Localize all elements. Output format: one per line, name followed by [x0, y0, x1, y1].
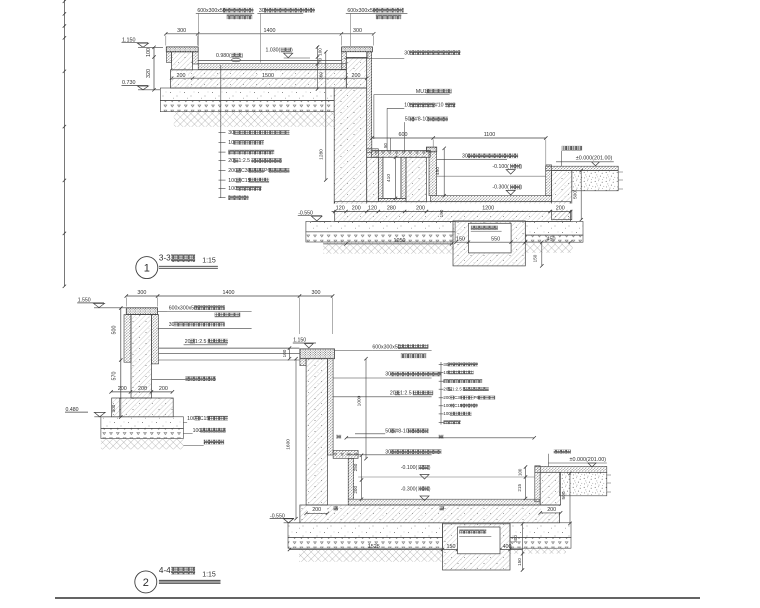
d2 material build-up list — [439, 362, 495, 425]
left curb outer lining — [166, 52, 171, 63]
svg-text:): ) — [291, 48, 293, 54]
svg-text:320: 320 — [146, 69, 152, 78]
pool bottom level -0.300 — [492, 185, 522, 195]
svg-text:120: 120 — [368, 205, 377, 211]
svg-text:250: 250 — [353, 463, 358, 471]
svg-text:30: 30 — [259, 8, 265, 14]
svg-text:±0.000(201.00): ±0.000(201.00) — [570, 457, 607, 463]
dim 500 right wall — [573, 169, 583, 222]
d2 left wall left lining — [124, 315, 131, 363]
pool left wall lining — [429, 152, 437, 196]
d2 sump cavity — [458, 527, 501, 554]
d2 label 50 thick black gravel — [355, 429, 429, 435]
svg-text:600x300x50: 600x300x50 — [372, 344, 400, 350]
svg-text:): ) — [242, 53, 244, 59]
main wall core upper (cast concrete) — [346, 57, 366, 88]
vertical dim 1280 on wall — [319, 50, 328, 182]
svg-text:1200: 1200 — [482, 205, 494, 211]
sump right depth dim 150 — [533, 241, 544, 268]
svg-text:150: 150 — [517, 558, 522, 566]
svg-text:300: 300 — [137, 290, 146, 296]
d2 left wall core — [131, 315, 152, 399]
footing concrete cushion (right) — [525, 221, 583, 235]
svg-text:): ) — [520, 164, 522, 170]
d2 bottom 200 dims — [304, 506, 562, 515]
svg-text:1.030(: 1.030( — [266, 48, 281, 54]
d2 pool ledge lining — [333, 450, 358, 458]
svg-text:500: 500 — [573, 191, 579, 199]
d2 left wall coping stone — [126, 308, 157, 315]
d2 pool right wall lining — [535, 466, 540, 502]
elevation marker 1.550 — [77, 298, 126, 308]
d2 label anti-seepage membrane — [152, 376, 216, 381]
svg-text:200: 200 — [556, 205, 565, 211]
label 30 thick grey culture stone (pool) — [437, 154, 518, 160]
elevation marker 0.480 — [65, 407, 112, 417]
svg-text:500: 500 — [112, 326, 118, 335]
title 4-4 section 1:15 — [135, 566, 221, 593]
svg-text:100: 100 — [187, 416, 196, 422]
masonry between trench and pool — [406, 157, 426, 201]
svg-text:100: 100 — [193, 428, 202, 434]
channel floor lining — [198, 61, 346, 70]
d2 dim 100 at right wall — [282, 346, 291, 360]
svg-text:70: 70 — [318, 58, 323, 64]
d2 vertical dims 500-570 — [112, 306, 123, 418]
elevation marker 1.150 (d2) — [293, 338, 316, 348]
d2 left wall right lining — [152, 315, 159, 364]
svg-text:-0.300(: -0.300( — [492, 185, 509, 191]
svg-text:300: 300 — [177, 28, 186, 34]
svg-text:20: 20 — [185, 339, 191, 345]
svg-text:): ) — [429, 465, 431, 471]
trench left wall lining — [378, 157, 383, 198]
d2 right paving — [535, 466, 607, 472]
elevation marker -0.550 (d2) — [270, 513, 300, 523]
d2 dim row 1525-150-400 — [288, 544, 523, 551]
d2 wall footing block — [112, 398, 174, 417]
svg-text:200: 200 — [118, 386, 127, 392]
dim 450 (right cushion) — [524, 237, 572, 244]
svg-text:30: 30 — [462, 154, 468, 160]
svg-text:-0.100(: -0.100( — [401, 465, 418, 471]
svg-text:550: 550 — [491, 237, 500, 243]
svg-text:4-4: 4-4 — [159, 566, 171, 575]
svg-text:100: 100 — [517, 468, 522, 476]
d2 right soil block — [560, 472, 612, 496]
svg-text:200: 200 — [159, 386, 168, 392]
dim row 600-1100 — [370, 132, 547, 166]
svg-text:600: 600 — [399, 132, 408, 138]
main wall right lining — [367, 52, 372, 153]
d2 pool right dims 100-215 — [517, 465, 527, 500]
right soil block — [572, 171, 623, 191]
svg-text:410: 410 — [386, 174, 392, 182]
svg-text:200: 200 — [416, 205, 425, 211]
label natural soil cover — [562, 146, 582, 166]
d2 label 600x300x50 granite coping — [158, 305, 252, 317]
trench depth dim 410 — [386, 156, 397, 201]
elevation marker -0.550 — [298, 211, 331, 222]
d2 label 600x300x50 granite coping (pool wall) — [335, 344, 432, 358]
d2 pool floor lining — [348, 499, 540, 505]
label 10 thick stainless steel plate — [387, 103, 455, 151]
svg-text:1500: 1500 — [262, 73, 274, 79]
dim row 200-1500-200 — [170, 72, 369, 80]
vertical dims 100 and 320 — [146, 46, 156, 92]
d2 sump right dims 300-150 — [513, 522, 524, 572]
sump dims 150-550 — [454, 237, 542, 244]
d2 vertical dim 1600 — [285, 357, 297, 520]
d2 label 30 thick culture stone — [158, 322, 252, 329]
svg-text:190: 190 — [439, 209, 444, 217]
pool floor lining — [430, 196, 551, 202]
svg-text:50: 50 — [405, 117, 411, 123]
svg-text:200: 200 — [177, 73, 186, 79]
svg-text:-0.100(: -0.100( — [492, 164, 509, 170]
svg-text:300: 300 — [111, 404, 116, 412]
rammed soil layer — [174, 112, 334, 127]
d2 top dim row 300-1400-300 — [125, 290, 335, 334]
d2 gravel cushion — [101, 428, 183, 438]
svg-text:500: 500 — [561, 491, 567, 499]
svg-text:30: 30 — [228, 130, 234, 136]
svg-text:1:2.5: 1:2.5 — [195, 339, 207, 345]
svg-text:1100: 1100 — [484, 132, 496, 138]
svg-text:10: 10 — [404, 103, 410, 109]
d2 gravel shelf line — [337, 435, 536, 440]
elevation marker 0.730 — [122, 80, 161, 90]
svg-text:300: 300 — [513, 535, 518, 543]
gravel thickness dim 50 — [383, 138, 390, 151]
d2 footing concrete cushion — [288, 523, 443, 538]
svg-text:20: 20 — [228, 158, 234, 164]
d2 label C15 cushion — [183, 416, 228, 423]
svg-text:1:15: 1:15 — [202, 572, 216, 579]
svg-text:300: 300 — [353, 28, 362, 34]
svg-text:200: 200 — [228, 168, 237, 174]
sump pit surround — [453, 221, 525, 266]
d2 footing gravel cushion (right) — [510, 537, 571, 548]
label 600x300x50 granite coping (right) — [346, 8, 408, 46]
d2 pool left wall lining — [348, 458, 354, 499]
bottom dim row 120-200-120-280-200-1200-200 — [332, 204, 574, 214]
svg-text:): ) — [520, 185, 522, 191]
level +-0.000 (201.00) — [556, 156, 614, 166]
svg-text:1: 1 — [144, 263, 150, 275]
pool depth dim 450 — [435, 147, 446, 198]
soil below footing (left) — [323, 242, 454, 254]
svg-text:1:2.5: 1:2.5 — [239, 158, 251, 164]
right curb inner lining (channel side) — [342, 52, 347, 70]
channel left inner lining — [193, 52, 199, 64]
svg-text:100: 100 — [146, 48, 152, 57]
soil below footing (right) — [525, 243, 572, 253]
sheet border line — [55, 597, 700, 599]
structural slab under pool — [335, 202, 571, 222]
d2 sump label — [459, 530, 491, 537]
pool water line — [437, 175, 546, 177]
label 30 thick grey culture stone (curb face) — [344, 50, 460, 58]
svg-text:1525: 1525 — [368, 544, 380, 550]
gravel cushion layer — [160, 101, 334, 112]
svg-text:100: 100 — [228, 186, 237, 192]
d2 vertical dim 1000 — [357, 357, 368, 460]
level text 0.980 with oval mark — [216, 53, 244, 62]
trench bottom lining — [378, 198, 406, 201]
masonry left of trench — [367, 157, 379, 201]
d2 right wall outer lining — [300, 359, 306, 366]
d2 dim 500 (right) — [561, 472, 572, 525]
d2 label gravel cushion — [183, 428, 225, 434]
gravel shelf 50 thick — [372, 151, 431, 158]
footing gravel cushion — [306, 232, 455, 242]
pool right wall (masonry) — [552, 171, 572, 220]
d2 rammed soil — [101, 439, 183, 450]
left curb coping stone — [166, 47, 198, 52]
svg-text:30: 30 — [385, 372, 391, 378]
svg-text:30: 30 — [404, 50, 410, 56]
d2 dim row 200-200-200 — [109, 386, 174, 394]
svg-text:#10: #10 — [435, 103, 444, 109]
svg-text:10: 10 — [228, 140, 234, 146]
svg-text:1280: 1280 — [319, 149, 325, 160]
svg-text:280: 280 — [387, 205, 396, 211]
ledge lining at wall foot — [367, 149, 379, 158]
svg-text:0.980(: 0.980( — [216, 53, 231, 59]
d2 soil band (right) — [510, 548, 566, 554]
svg-text:200: 200 — [547, 507, 556, 513]
svg-text:2: 2 — [143, 577, 149, 589]
left curb body (masonry) — [172, 52, 193, 70]
svg-text:200: 200 — [352, 205, 361, 211]
svg-text:-0.300(: -0.300( — [401, 486, 418, 492]
d2 label natural soil — [548, 450, 571, 467]
d2 pool bottom level -0.300 — [401, 486, 431, 500]
svg-text:150: 150 — [533, 254, 538, 262]
label 600x300x50 granite coping (left) — [196, 8, 254, 46]
label 30 thick grey culture stone slab (top) — [257, 8, 315, 63]
svg-text:100: 100 — [282, 349, 287, 357]
d2 right wall inner lining — [327, 359, 333, 455]
svg-text:100: 100 — [318, 48, 323, 56]
svg-text:100: 100 — [228, 178, 237, 184]
svg-text:600x300x50: 600x300x50 — [347, 8, 375, 14]
svg-text:1:15: 1:15 — [202, 258, 216, 265]
water level -0.100 — [492, 164, 522, 174]
right ground paving — [546, 166, 619, 170]
d2 label rammed soil — [183, 440, 224, 446]
footing concrete cushion — [306, 221, 455, 231]
svg-text:3-3: 3-3 — [159, 254, 171, 263]
svg-text:20: 20 — [390, 391, 396, 397]
svg-text:50: 50 — [385, 429, 391, 435]
svg-text:1600: 1600 — [285, 439, 291, 450]
d2 footing concrete cushion (right) — [510, 523, 571, 538]
d2 structural slab under pool — [300, 505, 560, 523]
small vertical dims at right curb — [316, 45, 324, 90]
svg-text:150: 150 — [456, 237, 465, 243]
svg-text:1400: 1400 — [264, 28, 276, 34]
title 3-3 section 1:15 — [136, 254, 218, 279]
sump label (submersible pump sump) — [471, 226, 502, 232]
svg-text:450: 450 — [435, 167, 441, 175]
paving between walls — [159, 348, 300, 360]
concrete cushion layer — [160, 88, 334, 101]
svg-text:30: 30 — [169, 322, 175, 328]
svg-text:#8-10: #8-10 — [395, 429, 408, 435]
svg-text:200: 200 — [353, 486, 358, 494]
svg-text:#8-10: #8-10 — [415, 117, 428, 123]
trench right wall lining — [401, 157, 406, 198]
right curb step face — [346, 52, 368, 58]
d2 soil band — [299, 548, 443, 562]
top dim row 300-1400-300 — [164, 28, 375, 46]
d2 label 20 thick 1:2.5 cement mortar — [184, 339, 228, 345]
d2 label 30 thick culture stone (wall face) — [333, 372, 441, 378]
svg-text:1:2.5: 1:2.5 — [400, 391, 412, 397]
d2 sump surround — [443, 524, 511, 570]
svg-text:30: 30 — [385, 449, 391, 455]
d2 level +-0.000(201.00) — [548, 457, 607, 467]
elevation marker 1.150 — [122, 38, 164, 48]
label MU10 cement brick masonry — [374, 89, 452, 139]
right curb coping stone — [342, 47, 373, 52]
d2 label 30 thick culture stone (pool) — [346, 449, 441, 455]
svg-text:300: 300 — [312, 290, 321, 296]
svg-text:200: 200 — [352, 73, 361, 79]
d2 pool right wall masonry — [540, 472, 560, 505]
trench cavity — [383, 157, 401, 198]
svg-text:1400: 1400 — [223, 290, 235, 296]
svg-text:): ) — [429, 486, 431, 492]
svg-text:±0.000(201.00): ±0.000(201.00) — [576, 156, 613, 162]
svg-text:450: 450 — [547, 237, 556, 243]
svg-text:600x300x50: 600x300x50 — [197, 8, 225, 14]
overall vertical dimension chain, left edge — [63, 0, 66, 288]
svg-text:200: 200 — [138, 386, 147, 392]
d2 right wall core — [306, 359, 327, 505]
d2 pool left dims 250-200 — [353, 454, 363, 501]
foundation mass under channel — [170, 70, 346, 88]
d2 label 20 thick mortar — [333, 391, 433, 397]
svg-text:120: 120 — [336, 205, 345, 211]
label 50 thick black gravel — [405, 117, 448, 153]
water level 1.030 in channel — [266, 48, 311, 58]
svg-text:1:2.5: 1:2.5 — [452, 386, 462, 391]
slab thickness dim 190 — [439, 209, 444, 217]
d2 pool water line — [358, 476, 535, 478]
svg-text:600x300x50: 600x300x50 — [169, 305, 197, 311]
d2 footing height dim 300 — [111, 398, 120, 417]
material build-up list (channel floor) — [219, 65, 290, 200]
pool edge stone (left) — [426, 147, 436, 152]
d2 footing gravel cushion — [288, 537, 443, 548]
sump pit cavity — [468, 223, 511, 253]
footing gravel cushion (right) — [525, 235, 583, 242]
svg-text:570: 570 — [112, 372, 118, 381]
dim 1050 — [323, 238, 453, 245]
d2 water level -0.100 — [401, 465, 431, 479]
pool right wall lining — [546, 165, 552, 196]
svg-text:50: 50 — [383, 143, 388, 148]
main wall core (cast concrete) — [334, 88, 367, 204]
svg-text:200: 200 — [312, 507, 321, 513]
d2 right wall coping — [300, 349, 335, 359]
svg-text:215: 215 — [517, 484, 522, 492]
d2 C15 concrete cushion — [101, 417, 183, 429]
